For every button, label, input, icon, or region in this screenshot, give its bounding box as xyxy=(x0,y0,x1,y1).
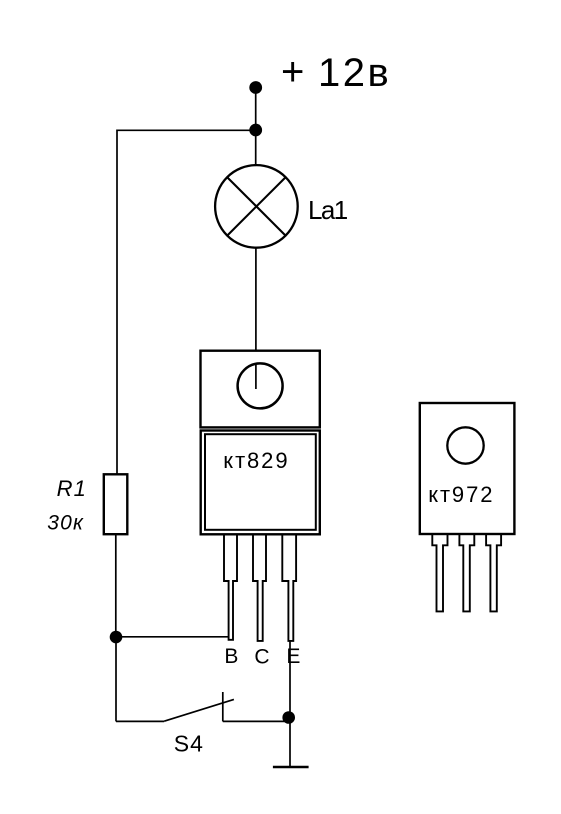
lamp La1 circle xyxy=(215,165,298,248)
transistor Q2 KT972 body rectangle xyxy=(420,403,515,534)
svg-text:+: + xyxy=(281,50,304,94)
transistor Q1 KT829 mounting hole xyxy=(238,363,283,408)
wire left vertical down to R1 xyxy=(116,130,118,475)
wire from base node down to switch xyxy=(115,637,117,721)
switch S4 blade xyxy=(164,699,234,721)
svg-text:S4: S4 xyxy=(174,730,204,756)
node base junction dot xyxy=(110,631,123,644)
svg-text:La1: La1 xyxy=(308,195,348,225)
svg-text:12в: 12в xyxy=(318,51,391,95)
wire from lamp down to Q1 tab xyxy=(255,248,257,389)
Q1 pin B (pin 1) xyxy=(224,535,237,640)
Q2 pin 3 xyxy=(486,535,501,611)
wire from +12V terminal down to junction xyxy=(255,88,257,130)
lamp La1 cross line 2 xyxy=(227,177,285,235)
svg-text:C: C xyxy=(254,645,269,668)
wire from pin E down to ground xyxy=(289,641,291,767)
transistor Q1 KT829 body outer rectangle xyxy=(201,431,320,535)
Q2 pin 2 xyxy=(459,535,474,611)
wire to switch S4 left contact xyxy=(116,720,164,722)
wire from switch to emitter node xyxy=(223,720,290,722)
wire stub into mounting hole xyxy=(255,363,257,389)
node +12V top terminal dot xyxy=(249,81,262,94)
svg-text:B: B xyxy=(224,645,238,668)
lamp La1 cross line 1 xyxy=(227,177,285,235)
ground symbol xyxy=(273,766,309,768)
switch S4 fixed contact xyxy=(222,692,224,721)
svg-text:30к: 30к xyxy=(47,512,84,535)
svg-text:E: E xyxy=(286,645,300,668)
wire from junction down to lamp xyxy=(255,130,257,166)
transistor Q1 KT829 body inner rectangle xyxy=(205,434,316,530)
transistor Q2 KT972 hole circle xyxy=(447,427,483,463)
wire from base node right to pin B xyxy=(116,636,229,638)
svg-text:кт972: кт972 xyxy=(428,482,494,507)
wire from R1 down to base node xyxy=(115,534,117,637)
Q1 pin C (pin 2) xyxy=(253,535,266,641)
svg-text:кт829: кт829 xyxy=(223,448,289,473)
node emitter junction dot xyxy=(282,711,295,724)
wire from junction left to R1 branch xyxy=(117,129,256,131)
Q1 pin E (pin 3) xyxy=(282,535,296,641)
svg-text:R1: R1 xyxy=(57,476,88,501)
transistor Q1 KT829 tab rectangle xyxy=(201,351,320,428)
node junction dot below +12V xyxy=(249,124,262,137)
resistor R1 body xyxy=(104,474,128,534)
Q2 pin 1 xyxy=(432,535,447,611)
